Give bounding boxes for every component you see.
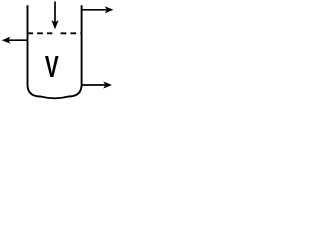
svg-text:V: V	[45, 49, 59, 84]
left outflow wire	[8, 39, 28, 41]
liquid level dashed line (left segment)	[27, 32, 52, 34]
bottom-right outflow wire	[82, 84, 105, 86]
tank vessel V (open-top, rounded bottom)	[28, 5, 82, 98]
top-right outflow wire	[82, 9, 107, 11]
inflow down arrow wire	[54, 2, 56, 23]
liquid level dashed line (right segment)	[61, 32, 82, 34]
left outflow arrowhead	[2, 37, 11, 44]
bottom-right outflow arrowhead	[103, 81, 112, 88]
inflow down arrowhead	[51, 20, 58, 29]
top-right outflow arrowhead	[105, 6, 114, 13]
